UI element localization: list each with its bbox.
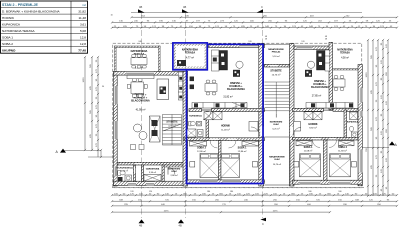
shoe chest at entry (stan3) [294,122,301,132]
svg-text:10,70 m²: 10,70 m² [273,163,282,166]
stan2 east wall (to corridor) [259,44,264,187]
svg-text:m2: m2 [82,3,86,7]
dining table (stan2) [205,80,217,95]
staircase (left unit) [163,115,182,146]
window (soba 2 south) [200,180,218,183]
svg-text:11,58 m²: 11,58 m² [338,150,347,153]
svg-text:9,92 m²: 9,92 m² [309,127,317,130]
small stacked labels above building [265,36,328,40]
stan3 bathroom west wall [344,110,347,138]
svg-text:12,80 m²: 12,80 m² [238,150,247,153]
window (left unit west, bath) [114,167,118,177]
bed soba 2 (stan3) [330,154,351,177]
entry door arc (stan3) [293,127,301,135]
dimension chain left small [100,149,102,158]
nightstand soba2 west (stan2) [190,162,195,168]
stools (left unit) [131,145,136,150]
svg-text:4B: 4B [139,5,142,9]
svg-text:5,16 m²: 5,16 m² [272,55,279,58]
nightstand soba1 east (stan2) [253,162,258,168]
section line A-A (left) [64,150,101,152]
tv cabinet (left unit) [150,116,161,142]
corridor east wall / stan3 west wall [290,44,295,187]
dashed line below south facade [112,187,364,189]
wall between garderoba and kupaonica [142,165,144,182]
hob (stan2) [233,70,240,77]
sideboard row along south wall (stan3 living) [306,103,353,109]
axis dashed line x=141.5 [141,13,143,218]
kitchen counter along east wall (left unit) [178,72,183,100]
axis marker B2 (top, x=185.5) [182,9,189,12]
door arc soba 2 (stan2) [210,141,218,149]
svg-text:10,75 m²: 10,75 m² [272,74,281,77]
dimension chain right 3 [377,39,379,196]
svg-text:31,82: 31,82 [78,10,86,14]
svg-text:NATKRIVENA TERASA: NATKRIVENA TERASA [2,29,35,33]
stan3 north wall [294,46,331,50]
wall cabinet 2 (stan2 west) [190,85,194,90]
terrace table (stan2) [177,60,186,66]
dimension chain right 5 [387,39,389,197]
svg-text:6,25 m²: 6,25 m² [272,128,279,131]
svg-text:12,8: 12,8 [80,36,86,40]
window (soba1 south stan3) [300,180,321,184]
porch north thin wall (left) [164,165,184,167]
sink (stan2) [197,121,202,126]
sideboard under north window (left unit) [127,75,154,78]
door arc living-to-hodnik (stan2) [203,112,211,120]
svg-text:STUBIŠTE: STUBIŠTE [166,121,178,124]
entry door arc (left unit) [168,168,175,175]
wall between soba1 and soba2 (stan3) [324,140,328,182]
svg-text:SOBA 1: SOBA 1 [2,36,13,40]
svg-text:D. BORAVAK + KUHINJA-BLAGOVAON: D. BORAVAK + KUHINJA-BLAGOVAONA [2,10,60,14]
dining table (left unit) [127,78,147,97]
window (left unit north, to terrace) [127,72,155,76]
window (stan3 east living) [358,88,362,102]
svg-text:STUBIŠTE: STUBIŠTE [270,70,282,73]
wardrobe soba 2 [190,141,207,146]
washing machine (left unit) [125,175,132,181]
closet hodnik west (stan2) [204,112,213,120]
svg-text:C: C [261,5,263,9]
left terrace east edge [159,46,161,72]
stan2 south wall [186,180,265,183]
facade window dimension texts (top) [138,41,305,43]
svg-text:3,61: 3,61 [80,23,86,27]
open court boundary [265,184,291,186]
toilet (stan2) [189,121,191,126]
shoe chest at entry (stan2) [249,122,258,132]
wall between garderoba and ulaz [162,165,164,182]
area table STAN 2 - PRIZEMLJE [1,1,88,53]
stan3 living south wall w2 [333,108,358,111]
facade window dimension texts (bottom) [130,191,342,193]
stan2 living south wall (west part) [189,109,202,112]
svg-text:77,48: 77,48 [78,49,86,53]
axis marker B2 (bottom) [178,219,184,223]
kitchen counter (stan3) [317,51,326,71]
entry thin line under stairs porch [265,136,290,138]
window (stan2 north) [240,44,260,48]
wall cabinet 1 (stan2 west) [190,77,194,82]
bed soba 1 (stan2) [221,154,240,178]
axis marker B1 (bottom) [139,219,145,223]
stan2 living south wall (east part) [212,109,265,112]
closet hodnik east (stan2) [213,112,222,120]
stan3 east exterior wall [358,65,362,186]
washer (stan2) [198,130,204,137]
left terrace top edge [115,46,161,48]
svg-text:4,75 m²: 4,75 m² [168,125,176,128]
svg-text:12,8: 12,8 [80,42,86,46]
dining table (stan3) [333,76,345,91]
window (left unit south 2) [147,181,155,185]
svg-text:4,58 m²: 4,58 m² [341,56,349,59]
closet hodnik (stan3) e [313,112,322,120]
svg-text:KUPAONICA: KUPAONICA [2,23,21,27]
stan3 living south wall w1 [293,108,324,111]
axis marker C (top, x=262.7) [257,9,263,12]
dimension chain right 2 [372,39,374,196]
stan2 north wall [209,44,265,48]
svg-text:4B: 4B [139,223,142,227]
prolaz top thin lines [265,43,290,45]
wardrobe soba 2 (stan3) [339,141,355,146]
dimension chain bottom row 2 [111,200,398,202]
nightstand soba2 east (stan3) [352,162,357,168]
window (soba 1 south) [223,180,241,183]
sink circle (stan3) [307,61,314,68]
stan3 east living wall (to terrace) [329,42,333,110]
bed soba 1 (stan3) [300,154,321,177]
stan2 bathroom east wall [206,112,209,141]
dimension chain left mid [91,56,93,151]
svg-text:SOBA 2: SOBA 2 [338,146,347,149]
table data rows [2,10,86,53]
dimension chain bottom row 4 (long) [111,211,331,213]
svg-text:4B: 4B [179,223,182,227]
bed soba 2 (stan2) [200,154,219,178]
staircase (corridor) [265,82,290,118]
svg-text:1030: 1030 [366,72,368,78]
dimension chain top row 3 [111,27,398,29]
dimension chain right 1 [367,39,369,197]
window (left unit west, living) [114,86,118,104]
hob (stan3) [305,70,312,77]
stan2 wall above bedrooms [184,138,265,141]
svg-text:3,90 m²: 3,90 m² [149,171,156,174]
section marker A (right) [389,141,395,145]
svg-text:HODNIK: HODNIK [2,16,15,20]
window (stan3 east soba) [358,150,362,173]
wardrobe soba 1 [242,141,259,146]
svg-text:5,08: 5,08 [80,29,86,33]
svg-text:C: C [262,222,264,226]
svg-text:11,48: 11,48 [78,16,86,20]
svg-text:STAN 2 - PRIZEMLJE: STAN 2 - PRIZEMLJE [2,3,38,7]
sideboard row along south wall (stan2 living) [192,103,247,109]
dimension chain top row 1 [130,16,398,18]
stan3 terrace bottom edge [333,69,359,70]
door arc soba 2 (stan3) [329,140,337,148]
svg-text:SOBA 1: SOBA 1 [304,146,313,149]
stair cut line (left staircase) [163,124,181,131]
left unit west wall [114,72,118,187]
entry door arc (stan2) [251,127,260,136]
section marker A (left) [60,149,66,153]
svg-text:4,77 m²: 4,77 m² [186,57,194,60]
left unit south wall [114,181,187,185]
stan3 south wall [293,180,363,184]
window (left unit west, living 2) [114,121,118,139]
dimension chain right 4 [382,39,384,196]
toilet (left unit) [118,171,121,176]
axis dashed line x=185.5 [185,13,187,218]
shower (stan2) [187,129,197,137]
svg-text:SOBA 2: SOBA 2 [197,146,206,149]
door arc soba 1 (stan2) [229,141,237,149]
stan2 terrace hatched edge band [174,44,206,68]
STAN 2 blue boundary outline [173,43,263,184]
dimension chain bottom row 3 [111,205,398,207]
closet in garderoba [144,175,161,182]
svg-text:GARDEROBA: GARDEROBA [146,168,160,171]
door arc soba 1 (stan3) [313,140,321,148]
svg-text:UKUPNO: UKUPNO [2,49,16,53]
sink circle (stan2) [236,61,243,68]
nightstand soba1 west (stan3) [294,162,299,168]
round tables (left unit) [134,124,142,132]
wall kupaonica east [134,165,136,182]
svg-text:41,95 m²: 41,95 m² [136,109,146,112]
svg-text:4B: 4B [183,5,186,9]
dimension chain left outer [84,56,86,151]
axis dashed line x=262.7 [262,13,264,218]
svg-text:1030: 1030 [83,77,85,83]
svg-text:27,85 m²: 27,85 m² [312,95,322,98]
left terrace west edge [115,46,117,72]
window (stan3 east bath) [358,111,362,117]
svg-text:2,86 m²: 2,86 m² [170,174,177,177]
svg-text:SOBA 1: SOBA 1 [238,146,247,149]
svg-text:HODNIK: HODNIK [308,124,317,126]
toilet (stan3) [349,126,353,131]
sink (left unit wc) [118,177,123,181]
washer (stan3) [352,132,358,138]
dimension chain bottom row 1 [111,194,398,196]
shower (stan3) [350,112,358,120]
axis marker B1 (top, x=141.5) [138,9,145,12]
section line A-A (right) [362,146,389,148]
svg-text:WC/KUPAONICA: WC/KUPAONICA [116,167,133,170]
wall between soba2 and soba1 (stan2) [219,141,222,180]
kitchen island (left unit) [157,79,169,100]
svg-text:11,48 m²: 11,48 m² [221,129,230,132]
svg-text:HODNIK: HODNIK [221,126,230,128]
terrace table with 6 chairs (left) [131,54,147,68]
corridor wall below prolaz [265,64,290,67]
svg-text:KUPAONICA: KUPAONICA [189,115,202,118]
svg-text:31,82 m²: 31,82 m² [223,95,233,98]
wardrobe soba 1 (stan3) [296,141,312,146]
left unit north wall [114,72,185,76]
window (soba2 south stan3) [330,180,351,184]
dimension chain top row 2 [111,21,398,23]
dimension chain left inner [97,56,99,157]
stan2 west wall (shared) [183,71,188,186]
svg-text:12,80 m²: 12,80 m² [197,150,206,153]
axis line (top) [131,12,362,14]
left unit interior wall (bath strip) [117,162,184,165]
window (left unit south 1) [128,181,136,185]
kitchen counter (stan2) [212,50,220,71]
stan3 wall above bedrooms [293,137,359,140]
svg-text:11,58 m²: 11,58 m² [304,150,313,153]
closet hodnik (stan3) w [304,112,313,120]
window (stan3 north) [297,46,312,50]
svg-text:KUPAONICA: KUPAONICA [347,120,359,123]
roof overhang dashed outline [113,43,362,188]
svg-text:SOBA 2: SOBA 2 [2,42,13,46]
axis marker C (bottom) [260,218,266,221]
